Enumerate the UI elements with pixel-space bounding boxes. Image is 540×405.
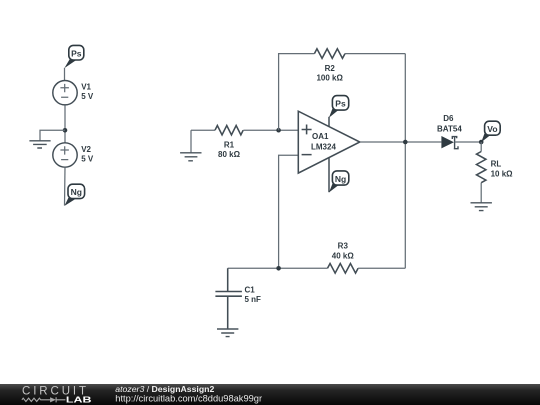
op-amp OA1 (298, 111, 360, 173)
svg-text:10 kΩ: 10 kΩ (491, 170, 514, 179)
node Ps label (op-amp V+) (329, 96, 349, 118)
wire V2 to Ng (64, 167, 67, 205)
node junction dot + input (276, 128, 281, 133)
svg-text:LAB: LAB (66, 396, 92, 405)
ground (R1 input) (180, 130, 201, 161)
svg-text:5 nF: 5 nF (245, 295, 262, 304)
wire op-amp output (360, 141, 442, 143)
svg-text:100 kΩ: 100 kΩ (316, 73, 343, 82)
svg-text:80 kΩ: 80 kΩ (218, 150, 241, 159)
wire to ground left (40, 130, 65, 140)
wire feedback left vertical (279, 54, 315, 131)
svg-text:atozer3 / DesignAssign2: atozer3 / DesignAssign2 (115, 384, 214, 394)
svg-text:R1: R1 (224, 140, 235, 149)
svg-text:RL: RL (491, 160, 502, 169)
capacitor C1 (215, 268, 242, 329)
resistor R1 (215, 125, 243, 134)
wire R2 to right vertical (345, 53, 405, 55)
value label V2 5 V (81, 145, 94, 163)
node Ng label (left source bottom) (65, 184, 85, 206)
svg-text:V2: V2 (81, 145, 91, 154)
svg-text:5 V: 5 V (81, 155, 94, 164)
svg-text:D6: D6 (443, 114, 454, 123)
node junction dot output (403, 140, 408, 145)
svg-text:5 V: 5 V (81, 92, 94, 101)
svg-text:OA1: OA1 (312, 132, 329, 141)
value label R2 100 kOhm (316, 64, 343, 83)
wire R3 to right vertical (358, 267, 405, 269)
wire Vo to RL (480, 142, 482, 152)
node Ng label (op-amp V-) (329, 171, 349, 193)
value label C1 5 nF (245, 285, 262, 303)
resistor R3 (328, 264, 359, 274)
svg-text:R3: R3 (338, 241, 349, 250)
wire R1 left lead (191, 129, 215, 131)
svg-text:LM324: LM324 (311, 142, 336, 151)
wire bottom horizontal (228, 267, 328, 269)
svg-text:Ng: Ng (335, 174, 346, 184)
svg-text:Ng: Ng (71, 187, 82, 197)
ground (left sources) (29, 141, 50, 148)
svg-text:Ps: Ps (71, 48, 82, 58)
wire Ps to V1 (64, 68, 66, 81)
node junction dot Vo (479, 140, 484, 145)
resistor RL (477, 152, 486, 183)
svg-text:R2: R2 (325, 64, 336, 73)
wire op-amp V- stub (328, 158, 330, 193)
wire op-amp V+ stub (328, 117, 330, 127)
wire RL to ground (480, 183, 482, 203)
node junction dot bottom (276, 266, 281, 271)
value label RL 10 kOhm (491, 160, 514, 179)
diode D6 (Schottky) (441, 136, 458, 149)
CircuitLab logo squiggle (22, 397, 66, 402)
node Ps label (left source top) (64, 45, 83, 68)
wire R1 to op-amp + input (243, 129, 298, 131)
svg-text:Ps: Ps (335, 99, 346, 109)
resistor R2 (314, 49, 345, 59)
svg-text:V1: V1 (81, 83, 91, 92)
svg-text:BAT54: BAT54 (437, 124, 462, 133)
svg-text:http://circuitlab.com/c8ddu98a: http://circuitlab.com/c8ddu98ak99gr (115, 394, 262, 404)
value label D6 BAT54 (437, 114, 462, 134)
svg-text:C1: C1 (245, 285, 256, 294)
ground (RL) (471, 203, 492, 211)
value label R3 40 kOhm (332, 241, 355, 260)
wire V1 to V2 (64, 105, 66, 143)
value label OA1 LM324 (311, 132, 336, 151)
svg-text:Vo: Vo (487, 124, 497, 134)
voltage source V1 (53, 81, 77, 105)
wire right vertical (output to feedback) (404, 54, 406, 269)
node Vo label (481, 121, 500, 142)
wire diode to Vo node (455, 141, 482, 143)
value label R1 80 kOhm (218, 140, 241, 159)
voltage source V2 (53, 143, 77, 167)
node junction dot left (63, 128, 68, 133)
wire op-amp - input (279, 155, 299, 268)
svg-text:40 kΩ: 40 kΩ (332, 251, 355, 260)
ground (C1) (217, 329, 238, 337)
value label V1 5 V (81, 83, 94, 101)
